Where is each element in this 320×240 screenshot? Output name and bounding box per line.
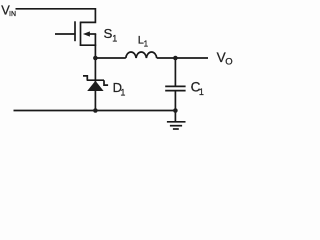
wire inductor to Vo: [157, 57, 208, 59]
wire ground rail: [14, 110, 176, 112]
diode D1 schottky right hook: [104, 80, 108, 85]
capacitor C1 top plate: [165, 85, 185, 87]
wire capacitor bottom lead: [174, 91, 176, 110]
svg-text:1: 1: [120, 88, 125, 98]
diode D1 cathode bar: [87, 79, 104, 81]
wire capacitor top lead: [174, 58, 176, 86]
capacitor C1 bottom plate: [165, 90, 185, 92]
transistor S1 channel: [80, 22, 82, 46]
svg-text:O: O: [225, 57, 232, 68]
svg-text:1: 1: [112, 34, 117, 44]
ground bar 1: [167, 121, 186, 123]
wire diode branch vertical: [94, 58, 96, 111]
wire V_IN top rail and corner to drain: [16, 9, 96, 23]
transistor S1 source lead: [80, 44, 96, 46]
svg-text:S: S: [104, 26, 113, 41]
svg-text:IN: IN: [9, 11, 16, 18]
ground stub: [174, 111, 176, 122]
node diode ground junction: [93, 108, 98, 113]
diode D1 triangle: [87, 81, 103, 91]
diode D1 schottky left hook: [83, 76, 87, 80]
transistor S1 body lead: [89, 33, 96, 35]
node capacitor ground junction: [173, 108, 178, 113]
transistor S1 gate plate: [74, 21, 76, 41]
wire gate lead: [55, 33, 76, 35]
svg-text:1: 1: [199, 87, 204, 97]
node output junction: [173, 56, 178, 61]
wire node to inductor: [95, 57, 126, 59]
inductor L1: [126, 52, 157, 58]
ground bar 2: [170, 125, 182, 127]
transistor S1 body arrow: [83, 31, 90, 36]
svg-text:1: 1: [144, 40, 149, 49]
ground bar 3: [173, 128, 179, 130]
wire source down to node: [94, 34, 96, 58]
node switch junction: [93, 56, 98, 61]
